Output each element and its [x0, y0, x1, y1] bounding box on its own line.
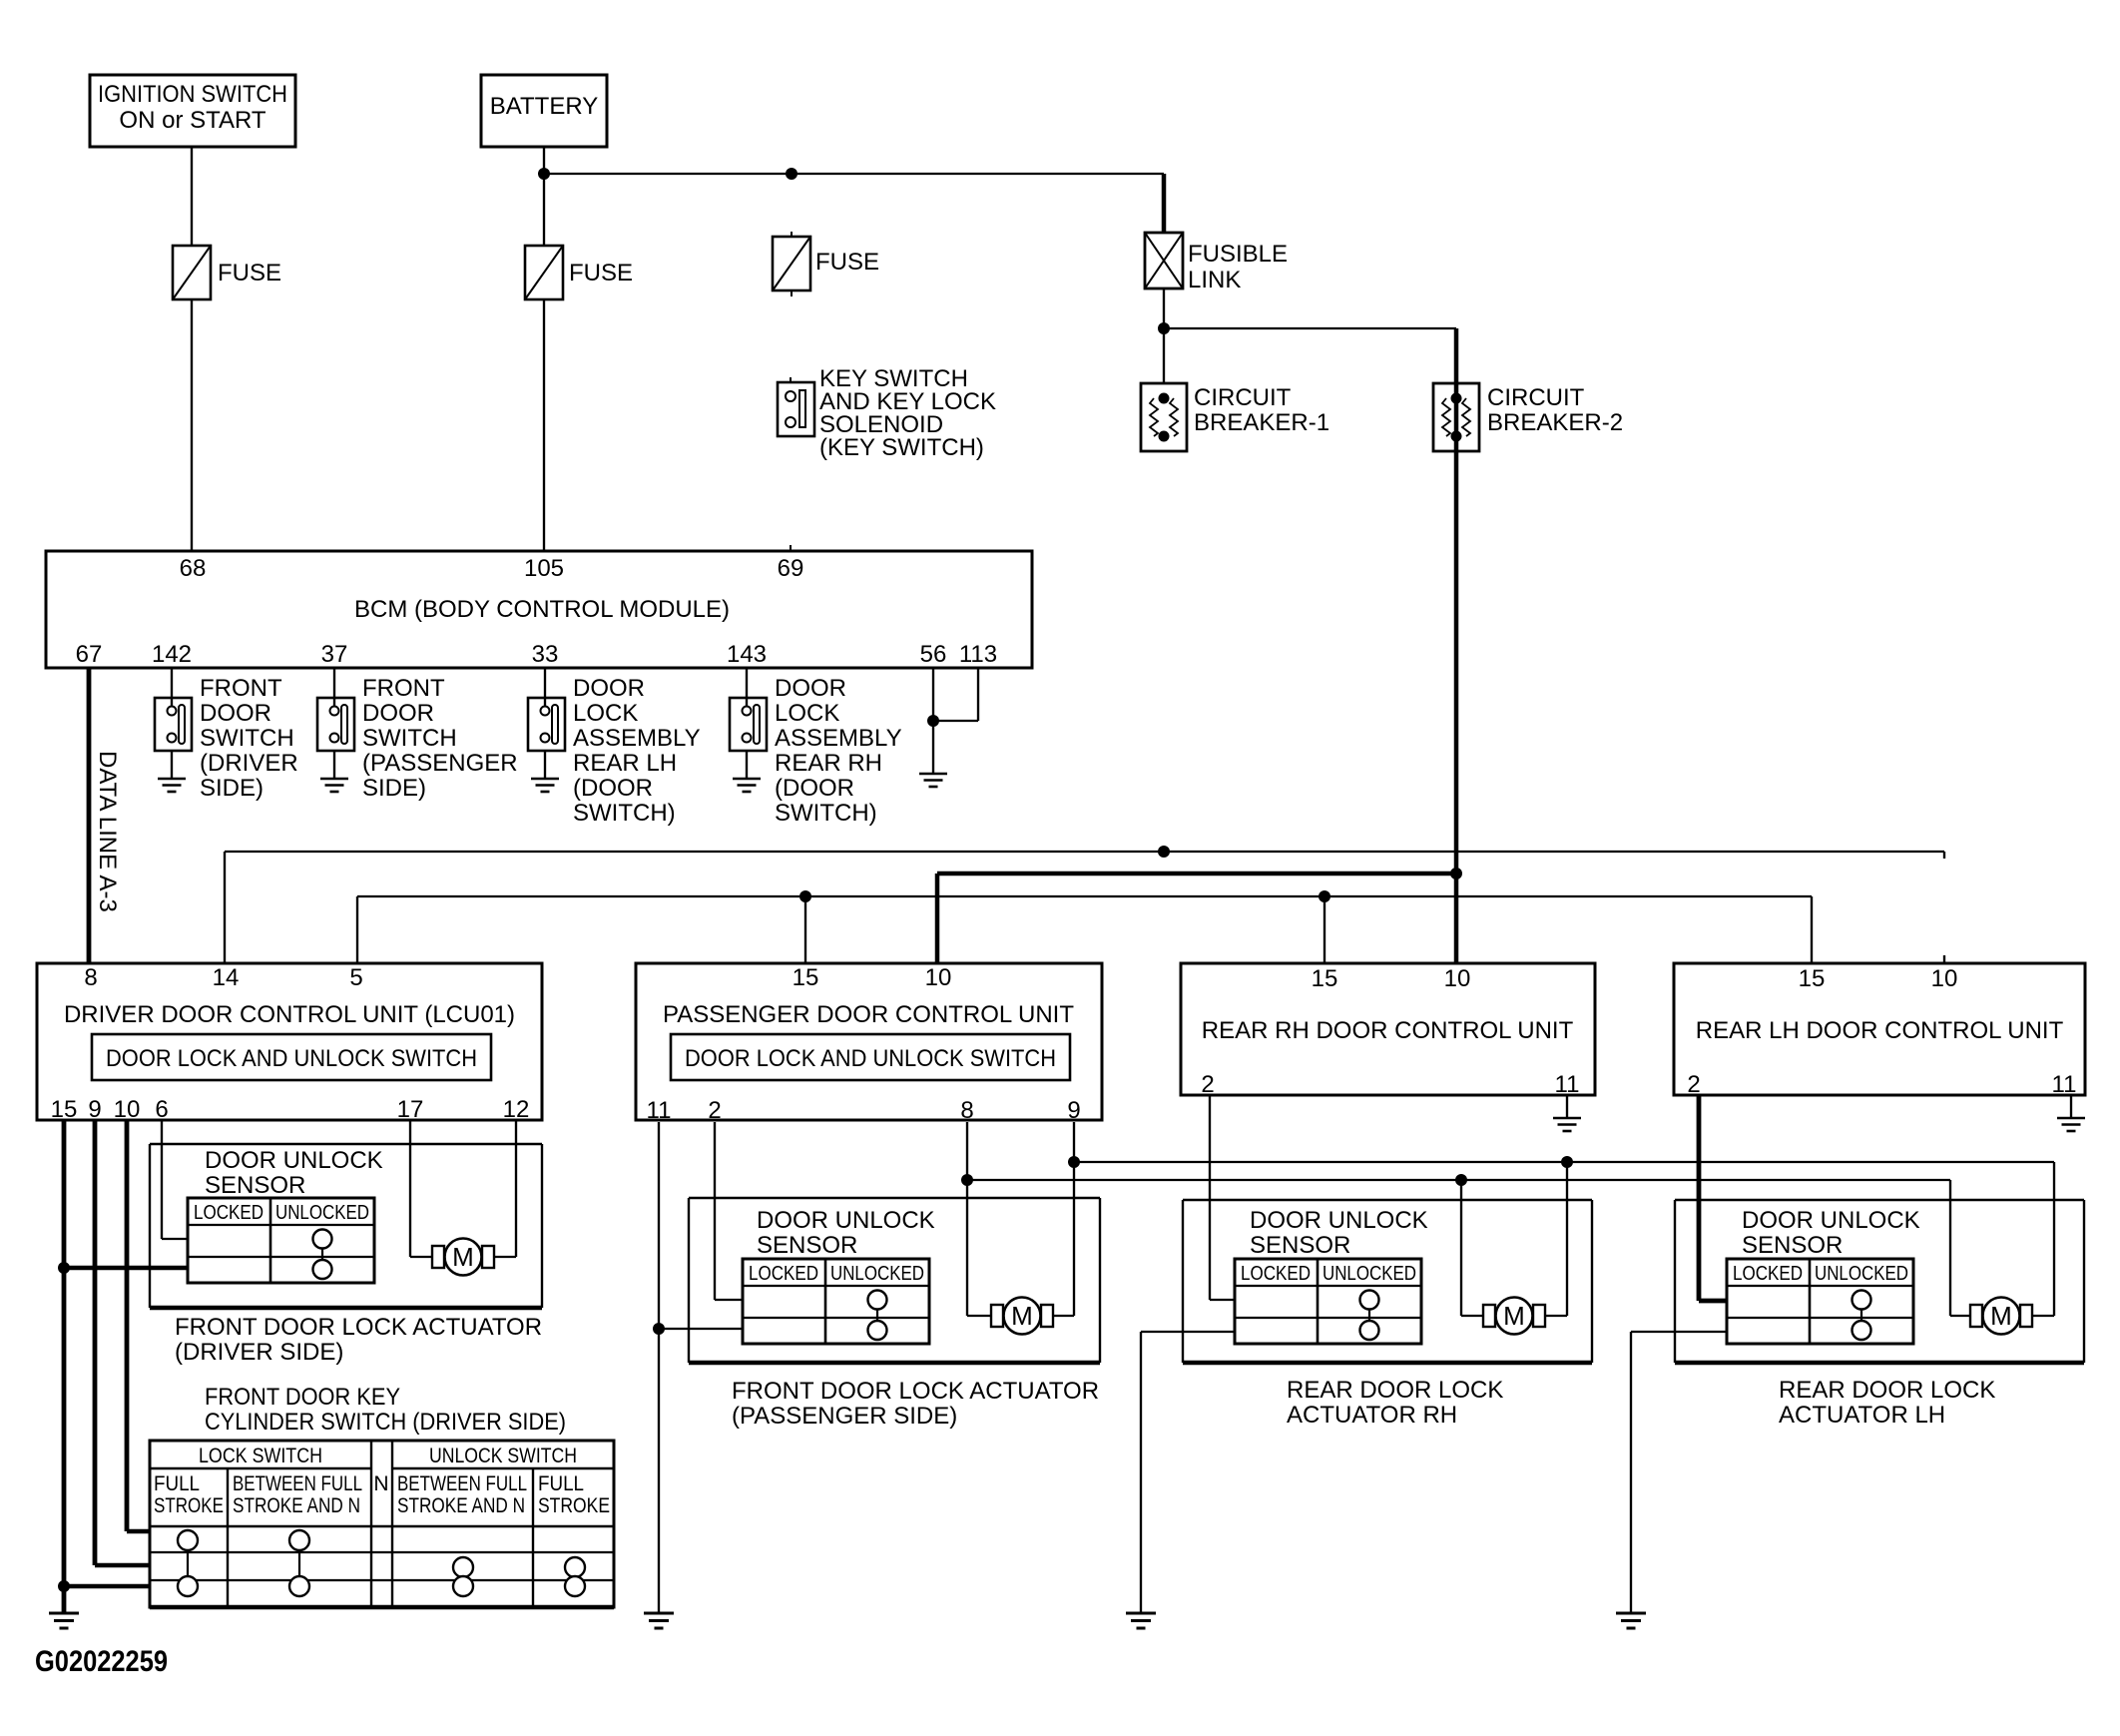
svg-text:LOCK: LOCK [775, 700, 839, 727]
svg-text:LOCKED: LOCKED [1241, 1263, 1311, 1285]
svg-text:PASSENGER DOOR CONTROL UNIT: PASSENGER DOOR CONTROL UNIT [663, 1001, 1074, 1028]
svg-text:REAR LH DOOR CONTROL UNIT: REAR LH DOOR CONTROL UNIT [1696, 1017, 2064, 1044]
svg-text:FUSIBLE: FUSIBLE [1188, 241, 1288, 268]
svg-text:9: 9 [1067, 1097, 1080, 1124]
svg-text:(DOOR: (DOOR [775, 775, 854, 802]
svg-text:56: 56 [920, 641, 947, 668]
svg-text:33: 33 [532, 641, 559, 668]
svg-text:(KEY SWITCH): (KEY SWITCH) [819, 434, 984, 461]
svg-text:15: 15 [1312, 965, 1338, 992]
svg-text:UNLOCKED: UNLOCKED [1815, 1263, 1908, 1285]
svg-text:REAR RH: REAR RH [775, 750, 882, 777]
svg-text:DOOR LOCK AND UNLOCK SWITCH: DOOR LOCK AND UNLOCK SWITCH [106, 1045, 477, 1072]
svg-text:CIRCUIT: CIRCUIT [1194, 384, 1292, 411]
svg-text:10: 10 [1444, 965, 1471, 992]
svg-text:FRONT DOOR KEY: FRONT DOOR KEY [205, 1384, 400, 1411]
svg-text:M: M [1503, 1301, 1525, 1331]
svg-text:(PASSENGER: (PASSENGER [362, 750, 518, 777]
svg-text:6: 6 [155, 1096, 168, 1123]
svg-text:142: 142 [152, 641, 192, 668]
svg-text:37: 37 [321, 641, 348, 668]
svg-text:M: M [1011, 1301, 1033, 1331]
svg-text:105: 105 [524, 555, 564, 582]
svg-text:FRONT: FRONT [200, 675, 282, 702]
svg-text:SENSOR: SENSOR [205, 1172, 305, 1199]
svg-text:143: 143 [727, 641, 767, 668]
svg-text:DOOR: DOOR [200, 700, 271, 727]
svg-text:FRONT DOOR LOCK ACTUATOR: FRONT DOOR LOCK ACTUATOR [175, 1314, 542, 1341]
svg-text:BETWEEN FULL: BETWEEN FULL [397, 1472, 527, 1495]
svg-text:SWITCH): SWITCH) [573, 800, 676, 827]
svg-text:8: 8 [960, 1097, 973, 1124]
svg-text:CIRCUIT: CIRCUIT [1487, 384, 1585, 411]
svg-text:DOOR: DOOR [362, 700, 434, 727]
svg-text:BCM (BODY CONTROL MODULE): BCM (BODY CONTROL MODULE) [354, 596, 730, 623]
svg-text:DOOR UNLOCK: DOOR UNLOCK [1250, 1207, 1428, 1234]
svg-text:BATTERY: BATTERY [490, 93, 598, 120]
svg-text:LOCKED: LOCKED [749, 1263, 818, 1285]
svg-text:UNLOCKED: UNLOCKED [275, 1202, 369, 1224]
svg-text:G02022259: G02022259 [35, 1645, 168, 1678]
svg-text:M: M [452, 1242, 474, 1272]
svg-text:10: 10 [114, 1096, 141, 1123]
svg-text:DOOR UNLOCK: DOOR UNLOCK [205, 1147, 383, 1174]
svg-text:SWITCH): SWITCH) [775, 800, 877, 827]
svg-text:(DRIVER SIDE): (DRIVER SIDE) [175, 1339, 343, 1366]
svg-text:17: 17 [397, 1096, 424, 1123]
svg-text:LOCK: LOCK [573, 700, 638, 727]
svg-text:FUSE: FUSE [569, 260, 633, 287]
svg-text:LOCKED: LOCKED [1733, 1263, 1803, 1285]
svg-text:BREAKER-1: BREAKER-1 [1194, 409, 1329, 436]
svg-text:69: 69 [778, 555, 804, 582]
svg-text:113: 113 [959, 641, 997, 668]
svg-text:UNLOCK SWITCH: UNLOCK SWITCH [429, 1445, 577, 1467]
svg-text:(DOOR: (DOOR [573, 775, 653, 802]
svg-text:11: 11 [2052, 1071, 2077, 1098]
svg-text:STROKE: STROKE [154, 1494, 224, 1517]
svg-text:FULL: FULL [154, 1472, 200, 1495]
svg-text:67: 67 [76, 641, 103, 668]
svg-text:FRONT DOOR LOCK ACTUATOR: FRONT DOOR LOCK ACTUATOR [732, 1378, 1099, 1405]
svg-text:STROKE AND N: STROKE AND N [233, 1494, 360, 1517]
svg-text:2: 2 [1201, 1071, 1214, 1098]
svg-text:BREAKER-2: BREAKER-2 [1487, 409, 1623, 436]
svg-text:SENSOR: SENSOR [1742, 1232, 1843, 1259]
svg-text:ACTUATOR LH: ACTUATOR LH [1779, 1402, 1945, 1429]
svg-text:ASSEMBLY: ASSEMBLY [775, 725, 902, 752]
svg-text:68: 68 [180, 555, 207, 582]
svg-text:ON or START: ON or START [119, 107, 265, 134]
svg-text:SWITCH: SWITCH [200, 725, 294, 752]
svg-text:ASSEMBLY: ASSEMBLY [573, 725, 701, 752]
svg-text:DOOR: DOOR [775, 675, 846, 702]
svg-text:SENSOR: SENSOR [757, 1232, 857, 1259]
svg-text:11: 11 [647, 1097, 672, 1124]
svg-text:11: 11 [1555, 1071, 1580, 1098]
svg-text:STROKE AND N: STROKE AND N [397, 1494, 525, 1517]
svg-text:DOOR UNLOCK: DOOR UNLOCK [1742, 1207, 1920, 1234]
svg-text:UNLOCKED: UNLOCKED [830, 1263, 924, 1285]
svg-text:FUSE: FUSE [218, 260, 281, 287]
svg-text:10: 10 [925, 964, 952, 991]
svg-text:SENSOR: SENSOR [1250, 1232, 1350, 1259]
svg-text:REAR DOOR LOCK: REAR DOOR LOCK [1287, 1377, 1503, 1404]
svg-text:SIDE): SIDE) [200, 775, 264, 802]
svg-text:BETWEEN FULL: BETWEEN FULL [233, 1472, 362, 1495]
svg-text:LOCKED: LOCKED [194, 1202, 264, 1224]
svg-text:DRIVER DOOR CONTROL UNIT (LCU0: DRIVER DOOR CONTROL UNIT (LCU01) [64, 1001, 515, 1028]
svg-text:5: 5 [349, 964, 362, 991]
svg-text:DATA LINE A-3: DATA LINE A-3 [94, 751, 121, 912]
svg-text:N: N [373, 1472, 388, 1495]
svg-text:DOOR LOCK AND UNLOCK SWITCH: DOOR LOCK AND UNLOCK SWITCH [685, 1045, 1056, 1072]
svg-text:FRONT: FRONT [362, 675, 445, 702]
svg-text:REAR RH DOOR CONTROL UNIT: REAR RH DOOR CONTROL UNIT [1202, 1017, 1574, 1044]
svg-text:STROKE: STROKE [538, 1494, 610, 1517]
svg-text:UNLOCKED: UNLOCKED [1323, 1263, 1416, 1285]
svg-text:FULL: FULL [538, 1472, 584, 1495]
svg-text:14: 14 [213, 964, 240, 991]
svg-text:DOOR: DOOR [573, 675, 645, 702]
svg-text:(PASSENGER SIDE): (PASSENGER SIDE) [732, 1403, 957, 1430]
svg-text:CYLINDER SWITCH (DRIVER SIDE): CYLINDER SWITCH (DRIVER SIDE) [205, 1409, 566, 1436]
svg-text:M: M [1990, 1301, 2012, 1331]
svg-text:8: 8 [84, 964, 97, 991]
svg-text:SIDE): SIDE) [362, 775, 426, 802]
svg-text:REAR DOOR LOCK: REAR DOOR LOCK [1779, 1377, 1995, 1404]
svg-text:9: 9 [88, 1096, 101, 1123]
svg-text:IGNITION SWITCH: IGNITION SWITCH [98, 81, 287, 108]
svg-text:(DRIVER: (DRIVER [200, 750, 298, 777]
svg-text:LOCK SWITCH: LOCK SWITCH [199, 1445, 322, 1467]
svg-text:FUSE: FUSE [815, 249, 879, 276]
svg-text:15: 15 [1799, 965, 1826, 992]
svg-text:2: 2 [1687, 1071, 1700, 1098]
svg-text:2: 2 [708, 1097, 721, 1124]
svg-text:DOOR UNLOCK: DOOR UNLOCK [757, 1207, 935, 1234]
svg-text:12: 12 [503, 1096, 530, 1123]
svg-text:10: 10 [1931, 965, 1958, 992]
svg-text:LINK: LINK [1188, 267, 1241, 293]
svg-text:15: 15 [51, 1096, 78, 1123]
svg-text:REAR LH: REAR LH [573, 750, 677, 777]
svg-text:ACTUATOR RH: ACTUATOR RH [1287, 1402, 1457, 1429]
svg-text:SWITCH: SWITCH [362, 725, 457, 752]
svg-text:15: 15 [793, 964, 819, 991]
